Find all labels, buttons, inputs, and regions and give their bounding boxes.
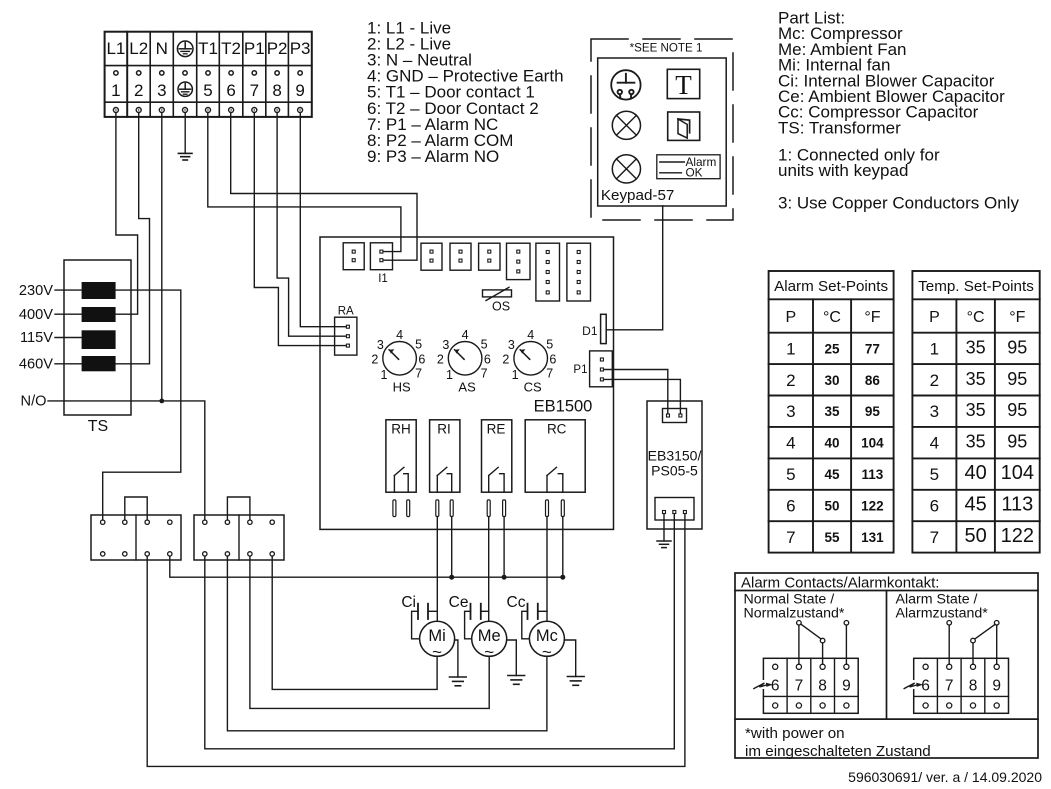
svg-text:Alarm Contacts/Alarmkontakt:: Alarm Contacts/Alarmkontakt: [741, 575, 939, 592]
keypad lamp icon 1 [612, 111, 640, 139]
svg-text:CS: CS [524, 379, 542, 394]
svg-text:L2: L2 [129, 39, 148, 58]
wire P1 pin2 to EB3150 [604, 370, 668, 414]
terminal 2 bottom pin [136, 108, 141, 113]
svg-text:45: 45 [824, 467, 840, 482]
svg-text:1: 1 [111, 81, 120, 100]
keypad inner box [598, 58, 727, 206]
wire RE pin2 to bus [503, 517, 505, 578]
svg-text:8: 8 [818, 678, 827, 695]
terminal 3 pin circle [160, 71, 164, 75]
svg-text:7: 7 [786, 528, 795, 547]
svg-text:°C: °C [823, 309, 841, 326]
terminal 7 pin circle [252, 71, 256, 75]
svg-text:113: 113 [862, 467, 884, 482]
svg-text:HS: HS [393, 379, 411, 394]
svg-text:122: 122 [1001, 525, 1034, 547]
contactor block K2 [194, 515, 284, 560]
wire T2 (terminal 6) to I1 pin 2 [231, 113, 417, 261]
svg-text:95: 95 [1007, 337, 1027, 357]
wire RC pin2 to bus [562, 517, 564, 578]
table Temp. Set-Points [912, 271, 1039, 553]
relay RC [525, 420, 585, 517]
capacitor Cc [507, 594, 538, 619]
svg-text:104: 104 [1001, 462, 1034, 484]
wire 400V label lead [55, 313, 82, 315]
capacitor Ci [401, 594, 428, 619]
svg-text:L1: L1 [106, 39, 125, 58]
svg-text:°F: °F [1009, 309, 1025, 326]
terminal 7 bottom pin [252, 108, 257, 113]
svg-text:TS: TS [88, 418, 108, 435]
svg-text:7: 7 [481, 367, 488, 381]
svg-text:95: 95 [865, 404, 881, 419]
wire Mi to ground [455, 640, 458, 677]
wire K2 pin 1 to EB3150 middle pin [205, 514, 675, 749]
EB1500 board outline [320, 237, 614, 529]
wire P2 (terminal 8) to RA pin 2 [277, 113, 346, 337]
svg-text:3: Use Copper Conductors Only: 3: Use Copper Conductors Only [778, 194, 1019, 213]
svg-text:P3: P3 [290, 39, 311, 58]
wire motor Mc to K2 pin 2 [227, 556, 547, 731]
wire RI pin1 to motor Mi [436, 517, 438, 622]
terminal 3 bottom pin [159, 108, 164, 113]
svg-text:P2: P2 [267, 39, 288, 58]
TS winding tap 460V [82, 356, 116, 371]
wire Ci right lead [428, 610, 437, 612]
junction node N / N/O [159, 399, 164, 404]
diode D1 [601, 314, 607, 343]
svg-text:OK: OK [686, 166, 703, 180]
svg-text:5: 5 [930, 465, 939, 484]
terminal block X1 [105, 32, 312, 117]
wire L2 (terminal 2) to TS 460V tap [116, 113, 150, 364]
jumper K1 pins 2-3 [125, 497, 147, 520]
svg-text:OS: OS [492, 300, 510, 314]
wire RE pin1 to motor Me [488, 517, 490, 622]
motor Me [472, 621, 507, 661]
svg-text:3: 3 [786, 402, 795, 421]
svg-text:2: 2 [437, 352, 444, 366]
svg-text:RH: RH [391, 421, 411, 436]
ground symbol Me [508, 675, 525, 677]
svg-text:N: N [156, 39, 168, 58]
thermistor OS [483, 287, 512, 300]
connector J6 [507, 243, 531, 279]
svg-text:2: 2 [371, 352, 378, 366]
svg-text:2: 2 [786, 371, 795, 390]
terminal 6 bottom pin [229, 108, 234, 113]
svg-text:RE: RE [487, 421, 506, 436]
svg-text:1: 1 [930, 339, 939, 358]
svg-text:N/O: N/O [21, 394, 47, 410]
alarm contact strip alarm [914, 658, 1009, 713]
alarm contact strip normal [763, 658, 858, 713]
svg-text:2: 2 [930, 371, 939, 390]
legend notes 1-9 [367, 19, 564, 166]
svg-text:T2: T2 [221, 39, 241, 58]
svg-text:104: 104 [861, 436, 884, 451]
svg-text:95: 95 [1007, 432, 1027, 452]
connector J4 [450, 243, 471, 270]
svg-text:2: 2 [134, 81, 143, 100]
svg-text:Alarmzustand*: Alarmzustand* [896, 606, 989, 622]
EB3150 bottom connector [655, 498, 694, 521]
svg-text:35: 35 [966, 432, 986, 452]
svg-text:1: 1 [512, 368, 519, 382]
svg-text:30: 30 [824, 373, 839, 388]
svg-text:1: 1 [381, 368, 388, 382]
svg-text:5: 5 [786, 465, 795, 484]
contact state symbol normal [797, 621, 849, 665]
connector P1 [590, 351, 613, 387]
ground symbol Mi [450, 676, 467, 678]
wire Ce left lead [465, 611, 472, 639]
terminal 9 pin circle [298, 71, 302, 75]
connector RA [335, 317, 357, 355]
wire N (terminal 3) to N/O node [161, 113, 163, 401]
svg-text:P1: P1 [244, 39, 265, 58]
keypad door button [668, 112, 700, 140]
svg-text:35: 35 [966, 369, 986, 389]
capacitor Ce [449, 594, 481, 619]
svg-text:7: 7 [415, 367, 422, 381]
wire Mc to ground [564, 640, 575, 677]
terminal 4 pin circle [183, 71, 187, 75]
svg-text:45: 45 [964, 493, 986, 515]
svg-text:P1: P1 [573, 364, 587, 376]
svg-text:*SEE NOTE 1: *SEE NOTE 1 [630, 42, 703, 55]
wire P3 (terminal 9) to RA pin 1 [300, 113, 346, 327]
svg-text:°C: °C [967, 309, 985, 326]
terminal 6 pin circle [229, 71, 233, 75]
wire EB3150 pin to ground [663, 514, 665, 541]
connector J1 [343, 243, 364, 270]
svg-text:6: 6 [549, 352, 556, 366]
terminal 5 bottom pin [206, 108, 211, 113]
wire N/O line [48, 401, 205, 520]
svg-text:*with power on: *with power on [745, 725, 845, 742]
motor Mi [420, 621, 455, 661]
wire P1 pin3 to EB3150 [604, 379, 680, 413]
contactor block K1 [91, 515, 181, 560]
svg-text:9: 9 [842, 678, 851, 695]
terminal 5 pin circle [206, 71, 210, 75]
svg-text:8: 8 [272, 81, 281, 100]
svg-text:5: 5 [415, 338, 422, 352]
svg-text:5: 5 [203, 81, 212, 100]
svg-text:7: 7 [546, 367, 553, 381]
svg-text:1: 1 [786, 339, 795, 358]
connector J5 [479, 243, 500, 270]
svg-text:460V: 460V [19, 357, 53, 373]
svg-text:4: 4 [930, 434, 939, 453]
svg-text:95: 95 [1007, 400, 1027, 420]
svg-text:Normalzustand*: Normalzustand* [744, 606, 845, 622]
wire P1 (terminal 7) to RA pin 3 [254, 113, 346, 346]
wire RC pin1 to motor Mc [546, 517, 548, 622]
jumper K2 pins 2-3 [227, 497, 250, 520]
connector J7 [536, 243, 560, 301]
svg-text:5: 5 [481, 338, 488, 352]
svg-text:3: 3 [157, 81, 166, 100]
wire motor Mi to K2 pin 4 [272, 556, 437, 689]
wire K1 pin4 common bus [170, 556, 563, 577]
svg-text:230V: 230V [19, 283, 53, 299]
svg-text:95: 95 [1007, 369, 1027, 389]
TS winding tap 230V [82, 282, 116, 299]
svg-text:115V: 115V [20, 330, 53, 346]
svg-text:4: 4 [396, 328, 403, 342]
junction node bus/RC [560, 575, 565, 580]
svg-text:2: 2 [502, 352, 509, 366]
wire TS 230V tap to contactor K1 [103, 290, 181, 520]
connector J8 [567, 243, 591, 301]
svg-text:50: 50 [824, 498, 839, 513]
svg-text:35: 35 [966, 400, 986, 420]
svg-text:Ce: Ce [449, 594, 469, 611]
svg-text:7: 7 [250, 81, 259, 100]
svg-text:4: 4 [527, 328, 534, 342]
svg-text:40: 40 [824, 436, 839, 451]
svg-text:P: P [929, 309, 940, 326]
svg-text:TS: Transformer: TS: Transformer [778, 118, 901, 137]
svg-text:7: 7 [795, 678, 804, 695]
svg-text:EB3150/: EB3150/ [648, 448, 702, 464]
ground symbol below terminal 4 [178, 152, 192, 154]
svg-text:400V: 400V [19, 307, 53, 323]
relay RE [482, 420, 512, 517]
TS winding tap 115V [82, 330, 116, 349]
terminal 4 bottom pin [183, 108, 188, 113]
svg-text:3: 3 [442, 338, 449, 352]
svg-text:Cc: Cc [507, 594, 526, 611]
svg-text:4: 4 [462, 328, 469, 342]
svg-text:RC: RC [547, 421, 567, 436]
svg-text:PS05-5: PS05-5 [651, 463, 698, 479]
terminal 8 bottom pin [275, 108, 280, 113]
keypad T button [667, 69, 699, 100]
keypad outer dashed box [591, 39, 733, 220]
wire T1 (terminal 5) to I1 pin 1 [208, 113, 401, 252]
svg-text:°F: °F [864, 309, 880, 326]
svg-text:I1: I1 [378, 273, 388, 285]
svg-text:9: 9 [992, 678, 1001, 695]
svg-text:9: P3 – Alarm NO: 9: P3 – Alarm NO [367, 147, 499, 166]
wire 115V label lead [55, 337, 82, 339]
TS winding tap 400V [82, 307, 116, 322]
relay RH [386, 420, 416, 517]
ground symbol Mc [567, 676, 584, 678]
wire Me to ground [507, 640, 517, 676]
alarm contacts outer box [735, 573, 1038, 758]
rotary switch CS [502, 328, 556, 394]
wire 230V label lead [55, 289, 82, 291]
svg-text:im eingeschalteten Zustand: im eingeschalteten Zustand [745, 743, 931, 760]
EB3150 top connector [663, 409, 687, 423]
terminal 9 bottom pin [298, 108, 303, 113]
svg-text:7: 7 [930, 528, 939, 547]
svg-text:D1: D1 [582, 324, 598, 338]
svg-text:40: 40 [964, 462, 986, 484]
svg-text:RI: RI [437, 421, 451, 436]
terminal 8 pin circle [275, 71, 279, 75]
svg-text:55: 55 [824, 530, 840, 545]
connector I1 [370, 243, 392, 270]
protective earth symbol (terminal 4) [178, 82, 192, 96]
keypad lamp icon 2 [612, 155, 640, 183]
svg-text:RA: RA [338, 306, 354, 318]
svg-text:1: 1 [446, 368, 453, 382]
wire K1 pin 3 to EB3150 right pin [147, 514, 685, 766]
svg-text:Ci: Ci [401, 594, 416, 611]
svg-text:AS: AS [458, 379, 476, 394]
svg-text:6: 6 [930, 496, 939, 515]
relay RI [430, 420, 460, 517]
rotary switch HS [371, 328, 425, 394]
wire Cc left lead [522, 611, 530, 639]
svg-text:6: 6 [921, 678, 930, 695]
protective earth symbol (top row col 4) [177, 41, 193, 57]
svg-text:Keypad-57: Keypad-57 [601, 187, 674, 204]
svg-text:3: 3 [377, 338, 384, 352]
svg-text:3: 3 [508, 338, 515, 352]
svg-text:EB1500: EB1500 [534, 398, 593, 416]
svg-text:6: 6 [786, 496, 795, 515]
svg-text:50: 50 [964, 525, 986, 547]
junction node bus/RE [502, 575, 507, 580]
wire motor Me to K2 pin 3 [250, 556, 489, 708]
svg-text:35: 35 [824, 404, 840, 419]
svg-text:units with keypad: units with keypad [778, 161, 908, 180]
terminal 1 bottom pin [113, 108, 118, 113]
svg-text:6: 6 [771, 678, 780, 695]
part list text [778, 9, 1019, 213]
table Alarm Set-Points [769, 271, 894, 553]
EB3150/PS05-5 box [647, 401, 702, 529]
svg-text:122: 122 [861, 498, 884, 513]
wire keypad to D1 [606, 206, 662, 330]
rotary switch AS [437, 328, 491, 394]
terminal 2 pin circle [137, 71, 141, 75]
svg-text:25: 25 [824, 341, 840, 356]
svg-text:77: 77 [865, 341, 880, 356]
wire L1 (terminal 1) to TS 400V tap [116, 113, 138, 315]
svg-text:4: 4 [786, 434, 795, 453]
contact state symbol alarm [947, 621, 999, 665]
keypad power contact icon [611, 70, 640, 99]
wire Cc right lead [538, 610, 547, 612]
terminal 1 pin circle [114, 71, 118, 75]
svg-text:6: 6 [418, 352, 425, 366]
svg-text:596030691/ ver. a / 14.09.2020: 596030691/ ver. a / 14.09.2020 [848, 769, 1042, 785]
wire 460V label lead [55, 363, 82, 365]
svg-text:Alarm Set-Points: Alarm Set-Points [774, 278, 888, 295]
connector J3 [421, 243, 442, 270]
wire RI pin2 to bus [451, 517, 453, 578]
keypad Alarm/OK legend box [657, 155, 720, 180]
wire terminal 4 to ground [184, 113, 186, 154]
wire Ci left lead [412, 611, 420, 639]
svg-text:131: 131 [861, 530, 884, 545]
wire Ce right lead [481, 610, 489, 612]
svg-text:8: 8 [969, 678, 978, 695]
svg-text:7: 7 [945, 678, 954, 695]
svg-text:Temp. Set-Points: Temp. Set-Points [918, 278, 1034, 295]
svg-text:P: P [785, 309, 796, 326]
motor Mc [529, 621, 564, 661]
junction node bus/RI [449, 575, 454, 580]
svg-text:3: 3 [930, 402, 939, 421]
svg-text:6: 6 [226, 81, 235, 100]
svg-text:T: T [675, 70, 692, 100]
svg-text:113: 113 [1001, 493, 1033, 515]
svg-text:35: 35 [966, 337, 986, 357]
ground symbol below EB3150 [657, 540, 671, 542]
lightning arrow alarm [904, 680, 923, 689]
svg-text:T1: T1 [198, 39, 218, 58]
svg-text:5: 5 [546, 338, 553, 352]
svg-text:86: 86 [865, 373, 881, 388]
svg-text:6: 6 [484, 352, 491, 366]
lightning arrow normal [754, 680, 773, 689]
svg-text:9: 9 [295, 81, 304, 100]
transformer TS box [64, 260, 131, 415]
